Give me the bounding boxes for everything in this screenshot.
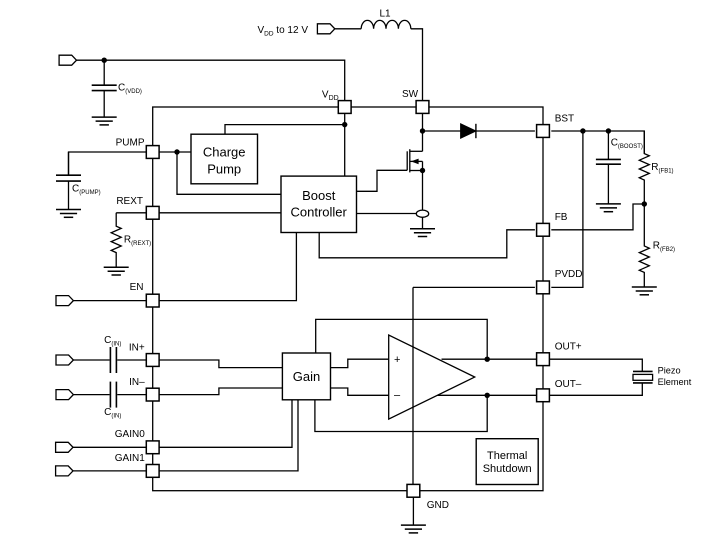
wire GAIN1 pin to gain block [159,400,298,471]
wire IN+ pin to gain block [159,360,282,368]
wire op-amp to OUT+ pin [442,358,537,360]
svg-text:Pump: Pump [207,161,241,176]
capacitor C(VDD) [92,60,142,117]
pin BST [537,113,575,137]
svg-text:Shutdown: Shutdown [483,463,532,475]
svg-text:SW: SW [402,89,419,100]
wire boost controller to current sense [357,213,417,215]
svg-text:PUMP: PUMP [116,138,145,149]
wire IN- pin to gain block [159,388,282,395]
ground below GND pin [401,525,426,533]
svg-text:GAIN1: GAIN1 [115,453,145,464]
svg-text:BST: BST [555,113,574,124]
capacitor C(IN) upper [110,347,116,373]
input flag EN [56,296,73,306]
wire REXT pin to boost controller [159,212,281,214]
pin FB [537,212,568,236]
wire VDD pin to boost controller [344,113,346,176]
ground below C(BOOST) [596,204,621,212]
pin SW [402,89,429,113]
ground below R(REXT) [104,267,129,275]
svg-text:–: – [394,390,401,402]
capacitor C(PUMP) [56,152,101,210]
pin OUT+ [537,342,582,366]
node MOSFET source junction [420,168,425,173]
pin GAIN0 [115,429,159,454]
piezo element [633,365,692,387]
diode D1 [461,124,476,138]
svg-text:+: + [394,354,400,366]
node BST-CBOOST branch [606,128,611,133]
wire EN flag to pin [73,300,146,302]
current sense element [416,210,428,217]
wire BST to PVDD [551,131,583,287]
node OUT+ junction [485,357,490,362]
wire IN- flag to C(IN) [73,394,109,396]
wire PUMP junction to boost controller [177,152,281,194]
IC boundary outline [153,107,543,491]
svg-text:L1: L1 [379,9,391,20]
ground below C(PUMP) [56,210,81,218]
wire amplifier supply through op-amp [412,287,414,484]
wire VDD to charge pump [225,125,345,135]
wire op-amp to OUT- pin [438,394,537,396]
svg-text:GAIN0: GAIN0 [115,429,145,440]
wire SW to BST through diode [423,130,535,132]
gain block [282,353,330,400]
inductor L1 [361,9,411,29]
svg-text:Charge: Charge [203,145,246,160]
boost controller block [281,176,357,232]
svg-text:Thermal: Thermal [487,450,527,462]
input flag IN+ [56,355,73,365]
resistor R(REXT) [111,213,151,267]
pin GAIN1 [115,453,159,477]
svg-text:FB: FB [555,212,568,223]
node PUMP junction [174,149,179,154]
wire sense to ground [422,217,424,228]
node VDD internal junction [342,122,347,127]
wire gate drive to MOSFET [357,170,408,191]
wire GAIN0 flag to pin [73,446,146,448]
node OUT- junction [485,393,490,398]
input flag GAIN1 [56,466,73,476]
svg-text:IN–: IN– [129,377,145,388]
wire OUT- to piezo [549,383,642,395]
svg-text:REXT: REXT [116,196,143,207]
pin GND [407,484,449,511]
svg-text:OUT–: OUT– [555,379,582,390]
charge pump block [191,134,258,184]
wire GAIN0 pin to gain block [159,400,292,448]
svg-text:Gain: Gain [293,369,320,384]
wire PUMP pin to charge pump [159,151,191,153]
wire REXT pin to R(REXT) [116,212,146,214]
input flag VDD supply [317,24,334,34]
wire FB pin to boost controller [319,230,535,258]
wire C(IN) to IN- pin [117,394,146,396]
wire VDD supply to inductor [335,28,361,30]
capacitor C(BOOST) [596,131,643,204]
node SW junction [420,128,425,133]
svg-text:OUT+: OUT+ [555,342,582,353]
wire divider to FB pin [551,204,644,230]
input flag GAIN0 [56,442,73,452]
transistor Q1 boost NMOS [407,149,422,210]
op-amp U1 [389,335,475,419]
wire SW pin to MOSFET drain [422,113,424,151]
pin IN- [129,377,159,401]
wire inductor to SW pin [411,29,423,101]
wire GAIN1 flag to pin [73,470,146,472]
wire gain to op-amp noninverting [331,359,389,367]
wire BST to feedback divider [551,131,644,154]
wire EN pin to boost controller [159,233,296,301]
wire IN+ flag to C(IN) [73,359,109,361]
pin PVDD [537,269,583,294]
ground below MOSFET [410,229,435,237]
pin VDD [322,90,351,114]
thermal shutdown block [476,439,538,485]
svg-text:PVDD: PVDD [555,269,583,280]
svg-text:Controller: Controller [291,204,348,219]
svg-text:IN+: IN+ [129,343,145,354]
resistor R(FB2) [639,204,675,287]
svg-text:EN: EN [130,282,144,293]
ground below C(VDD) [92,117,117,125]
input flag IN- [56,390,73,400]
pin OUT- [537,379,582,402]
wire PVDD to amplifier supply [413,286,535,288]
wire flag to VDD pin [77,60,345,101]
wire feedback bottom [315,395,487,431]
svg-text:Piezo: Piezo [658,365,681,375]
input flag VDD pin [59,55,76,65]
wire C(IN) to IN+ pin [117,359,146,361]
svg-text:Boost: Boost [302,188,336,203]
wire OUT+ to piezo [549,359,642,371]
wire feedback top [316,319,488,359]
pin REXT [116,196,159,219]
wire GND pin to ground [412,491,414,525]
pin PUMP [116,138,160,159]
pin EN [130,282,160,307]
node BST-PVDD branch [580,128,585,133]
ground below R(FB2) [632,287,657,295]
svg-text:Element: Element [658,377,692,387]
node C(VDD) tap [102,58,107,63]
node feedback divider [642,201,647,206]
resistor R(FB1) [639,131,673,204]
capacitor C(IN) lower [110,382,116,408]
svg-text:GND: GND [427,500,449,511]
pin IN+ [129,343,159,367]
wire PUMP pin to C(PUMP) [69,152,147,175]
wire gain to op-amp inverting [331,388,389,395]
